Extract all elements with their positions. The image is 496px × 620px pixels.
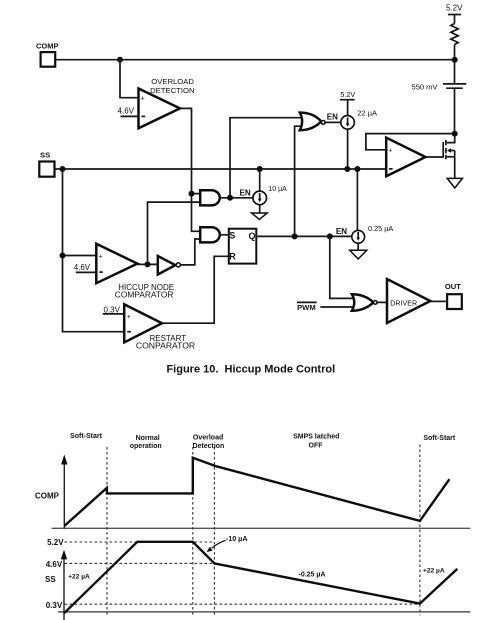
svg-text:+: + xyxy=(99,253,103,260)
svg-text:+: + xyxy=(141,96,145,103)
svg-text:Figure 10. Hiccup Mode Contro: Figure 10. Hiccup Mode Control xyxy=(166,363,335,375)
svg-text:4.6V: 4.6V xyxy=(74,263,91,272)
svg-text:4.6V: 4.6V xyxy=(46,560,63,569)
svg-text:CONPARATOR: CONPARATOR xyxy=(136,340,195,350)
svg-text:COMPARATOR: COMPARATOR xyxy=(115,289,174,299)
svg-text:-10 µA: -10 µA xyxy=(226,534,248,543)
svg-text:5.2V: 5.2V xyxy=(446,4,463,13)
svg-text:550 mV: 550 mV xyxy=(412,83,438,92)
svg-text:Normal: Normal xyxy=(136,435,160,442)
svg-text:R: R xyxy=(229,252,236,262)
svg-text:Soft-Start: Soft-Start xyxy=(423,435,456,442)
svg-text:SMPS latched: SMPS latched xyxy=(293,434,339,441)
svg-text:SS: SS xyxy=(40,151,50,160)
svg-text:Overload: Overload xyxy=(193,435,223,442)
svg-text:EN: EN xyxy=(336,227,347,236)
svg-text:OVERLOAD: OVERLOAD xyxy=(151,77,194,86)
svg-text:10 µA: 10 µA xyxy=(268,186,287,193)
svg-text:-0.25 µA: -0.25 µA xyxy=(299,572,326,579)
svg-text:+22 µA: +22 µA xyxy=(68,574,90,581)
svg-text:OUT: OUT xyxy=(445,282,461,291)
svg-text:OFF: OFF xyxy=(309,443,324,450)
svg-text:22 µA: 22 µA xyxy=(357,108,377,117)
svg-text:+22 µA: +22 µA xyxy=(423,568,445,575)
svg-text:COMP: COMP xyxy=(35,492,60,501)
svg-text:EN: EN xyxy=(327,113,338,122)
svg-text:DRIVER: DRIVER xyxy=(390,300,417,308)
svg-text:PWM: PWM xyxy=(297,303,316,312)
svg-text:0.3V: 0.3V xyxy=(46,601,63,610)
svg-text:5.2V: 5.2V xyxy=(47,538,64,547)
svg-text:0.25 µA: 0.25 µA xyxy=(368,224,393,233)
svg-text:EN: EN xyxy=(240,188,251,197)
svg-text:DETECTION: DETECTION xyxy=(150,86,194,95)
svg-text:SS: SS xyxy=(45,575,56,584)
svg-text:Soft-Start: Soft-Start xyxy=(70,433,103,440)
svg-text:+: + xyxy=(388,148,392,155)
svg-text:operation: operation xyxy=(130,443,162,450)
svg-text:0.3V: 0.3V xyxy=(104,306,121,315)
svg-text:5.2V: 5.2V xyxy=(340,90,355,99)
svg-text:Detection: Detection xyxy=(192,443,224,450)
svg-text:4.6V: 4.6V xyxy=(118,106,135,115)
svg-text:S: S xyxy=(229,231,235,241)
svg-text:COMP: COMP xyxy=(36,42,59,51)
svg-text:+: + xyxy=(127,314,131,321)
svg-text:Q: Q xyxy=(249,231,256,241)
